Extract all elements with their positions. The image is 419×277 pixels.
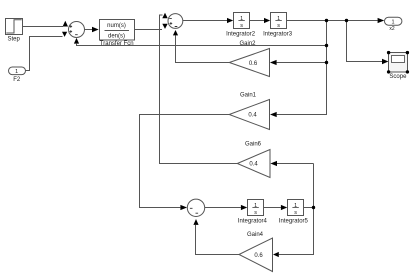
svg-text:den(s): den(s) bbox=[108, 34, 125, 40]
svg-text:s: s bbox=[240, 23, 243, 29]
svg-text:x2: x2 bbox=[389, 26, 395, 32]
svg-text:s: s bbox=[254, 210, 257, 216]
svg-text:Step: Step bbox=[8, 37, 21, 43]
svg-text:Gain6: Gain6 bbox=[245, 142, 262, 148]
svg-text:num(s): num(s) bbox=[107, 23, 126, 29]
svg-text:Integrator4: Integrator4 bbox=[238, 219, 268, 225]
svg-text:Gain2: Gain2 bbox=[239, 41, 256, 47]
svg-text:s: s bbox=[277, 23, 280, 29]
svg-text:Gain1: Gain1 bbox=[240, 93, 257, 99]
svg-text:0.4: 0.4 bbox=[249, 162, 258, 168]
svg-text:Integrator2: Integrator2 bbox=[226, 32, 256, 38]
svg-text:Integrator3: Integrator3 bbox=[263, 32, 293, 38]
svg-text:0.4: 0.4 bbox=[248, 113, 257, 119]
svg-text:F2: F2 bbox=[13, 77, 21, 83]
svg-text:Scope: Scope bbox=[389, 74, 407, 80]
svg-text:0.6: 0.6 bbox=[249, 61, 258, 67]
svg-text:Gain4: Gain4 bbox=[247, 232, 264, 238]
svg-text:Integrator5: Integrator5 bbox=[279, 219, 309, 225]
svg-text:Transfer Fcn: Transfer Fcn bbox=[100, 41, 134, 47]
svg-text:0.6: 0.6 bbox=[254, 253, 263, 259]
svg-text:1: 1 bbox=[391, 19, 394, 25]
svg-text:s: s bbox=[294, 210, 297, 216]
svg-text:1: 1 bbox=[15, 69, 18, 75]
